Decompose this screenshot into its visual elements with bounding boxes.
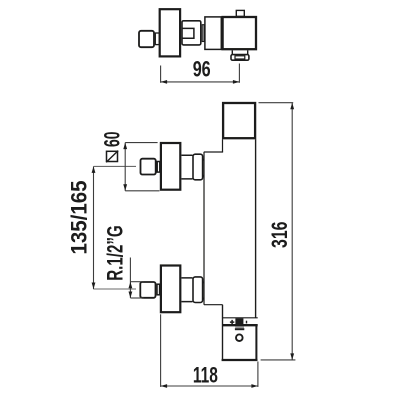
box bottom (bold) (222, 359, 258, 361)
plate F1 (bold) (161, 143, 180, 190)
knob T1 (top view small knob) (139, 31, 154, 47)
knob F2 (140, 282, 155, 298)
flange neck T (232, 50, 247, 54)
gray dash below band (235, 326, 244, 328)
square-60 symbol (106, 151, 118, 163)
svg-text:60: 60 (99, 132, 124, 148)
dim 316 ext bottom (261, 359, 296, 361)
centerline upper (94, 165, 136, 167)
svg-text:96: 96 (193, 57, 211, 82)
arrow sq60 top (123, 143, 127, 150)
dim sq60 ext bottom (125, 190, 159, 192)
flange inner T (235, 56, 245, 59)
dim 316 line (291, 103, 293, 360)
leader R12G tick bottom (130, 297, 143, 299)
leader R12G vertical (129, 258, 131, 298)
dim sq60 ext top (125, 142, 157, 144)
band bottom line (bold) (222, 324, 258, 326)
plate F2 (bold) (161, 266, 180, 313)
dim 118 ext right (257, 362, 259, 387)
top square F (shower connection, bold) (223, 103, 255, 138)
body right edge (255, 139, 257, 317)
dim 96 ext left (160, 66, 162, 83)
body left edge lower (222, 305, 224, 361)
arrow R12G down (129, 292, 133, 299)
svg-text:R.1/2”G: R.1/2”G (103, 225, 128, 281)
knob F1 (141, 159, 156, 175)
dim 96 line (161, 81, 240, 83)
adapter F1 nubs (203, 159, 204, 161)
svg-text:135/165: 135/165 (67, 181, 92, 255)
body square T (bold) (223, 17, 256, 49)
dim sq60 line (124, 143, 126, 191)
arrow 118 left (161, 384, 168, 388)
body step bottom (204, 304, 223, 306)
knob F1 connector (157, 162, 160, 173)
svg-text:118: 118 (193, 362, 218, 387)
arrow R12G up (129, 282, 133, 289)
box right edge (bold) (255, 325, 257, 361)
dim 96 ext right (238, 64, 240, 83)
body left edge upper (222, 139, 224, 152)
adapter F2 cap (193, 277, 203, 303)
knob F2 connector (157, 284, 160, 295)
adapter F2 nubs (203, 281, 204, 283)
leader R12G tick top (130, 281, 143, 283)
dim 118 ext left (160, 314, 162, 387)
knob T1 connector (155, 33, 159, 45)
adapter F2 inner sleeve (182, 278, 193, 302)
band right tick (246, 321, 247, 324)
arrow 135/165 top (92, 166, 96, 173)
body rect T (thin) (205, 17, 221, 50)
band black square (235, 318, 243, 325)
adapter F1 cap (193, 154, 203, 180)
dim 118 line (161, 385, 258, 387)
arrow 316 top (290, 103, 294, 110)
top tab T (236, 10, 244, 16)
dim 135/165 line (93, 166, 95, 289)
black dash below band (235, 328, 244, 330)
arrow 96 left (161, 80, 168, 84)
centerline lower (93, 288, 136, 290)
arrow 118 right (251, 384, 258, 388)
band plus mark (230, 320, 234, 324)
band top line (222, 317, 258, 319)
arrow 96 right (233, 80, 240, 84)
handle notch T (182, 28, 194, 38)
body left edge wide (203, 152, 205, 305)
dim 316 ext top (259, 102, 294, 104)
handle block T (182, 21, 201, 45)
arrow 316 bottom (290, 353, 294, 360)
body step top (204, 151, 223, 153)
flange T (231, 55, 249, 61)
plate T (top view escutcheon plate) (160, 9, 180, 56)
arrow sq60 bottom (123, 184, 127, 191)
diverter circle (236, 334, 243, 341)
arrow 135/165 bottom (92, 283, 96, 290)
joint strip T (202, 25, 204, 42)
svg-text:316: 316 (267, 222, 292, 249)
adapter F1 inner sleeve (182, 155, 193, 179)
